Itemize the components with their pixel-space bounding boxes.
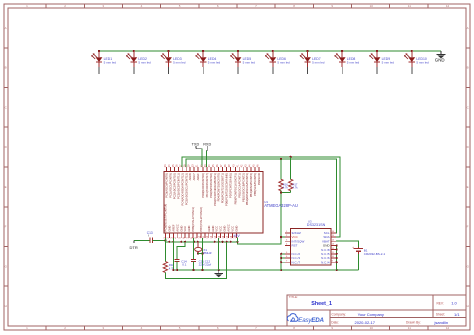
svg-text:GND: GND <box>223 226 227 232</box>
wire pull-up common node to +5V vertical <box>280 191 291 237</box>
svg-text:PD3(PCINT19/OC2B/INT1): PD3(PCINT19/OC2B/INT1) <box>213 173 217 206</box>
svg-text:F: F <box>467 225 469 229</box>
svg-text:+5V: +5V <box>233 234 240 238</box>
IC U3 DS3231SN RTC <box>285 219 336 265</box>
svg-text:PB3(MOSI/OC2A/PCINT3): PB3(MOSI/OC2A/PCINT3) <box>245 173 249 205</box>
net label TXD <box>192 142 202 148</box>
svg-text:PD6(PCINT22/OC0A/AIN0): PD6(PCINT22/OC0A/AIN0) <box>225 173 229 206</box>
svg-text:EasyEDA: EasyEDA <box>298 317 324 324</box>
LED LED1 5mm led with anode junction and cathode stub <box>91 50 116 74</box>
svg-text:5 mm led: 5 mm led <box>277 61 290 65</box>
LED LED6 5mm led with anode junction and cathode stub <box>265 50 290 74</box>
svg-text:12: 12 <box>446 326 450 330</box>
svg-text:PB1(OC1A/PCINT1): PB1(OC1A/PCINT1) <box>237 173 241 198</box>
LED LED9 5mm led with anode junction and cathode stub <box>369 50 394 74</box>
svg-text:AVCC: AVCC <box>175 224 179 231</box>
svg-text:PB2(SS/OC1B/PCINT2): PB2(SS/OC1B/PCINT2) <box>241 173 245 202</box>
LED LED7 5mm led with anode junction and cathode stub <box>300 50 325 74</box>
svg-text:PC2(ADC2/PCINT10): PC2(ADC2/PCINT10) <box>173 173 177 199</box>
svg-text:22pf 22pf: 22pf 22pf <box>199 263 212 267</box>
svg-text:GND: GND <box>234 226 238 232</box>
svg-text:11: 11 <box>408 326 411 330</box>
wire +5V rail under U1 to U3 VCC <box>165 236 290 244</box>
wire MCU GND pin drop <box>218 238 220 270</box>
svg-text:RXD: RXD <box>203 142 211 146</box>
svg-text:A: A <box>5 26 7 30</box>
junction SCL / R16 tap <box>280 158 282 160</box>
wire U3 GND and right N.C. pins tie to GND rail <box>336 244 338 270</box>
svg-text:4.7k: 4.7k <box>293 186 299 190</box>
svg-text:10: 10 <box>370 326 374 330</box>
svg-text:ATMEGA328P-AU: ATMEGA328P-AU <box>264 203 298 208</box>
wire GND rail <box>172 269 358 271</box>
svg-text:VCC: VCC <box>231 226 235 232</box>
svg-text:GND: GND <box>187 226 191 232</box>
svg-text:GND: GND <box>211 226 215 232</box>
svg-text:PD2(INT0/PCINT18): PD2(INT0/PCINT18) <box>209 173 213 198</box>
svg-text:A: A <box>467 26 469 30</box>
wire DTR to C13 <box>134 239 150 241</box>
svg-text:REV:: REV: <box>437 301 444 305</box>
wire LED cathode rail net <box>99 50 441 52</box>
svg-text:PD0(RXD/PCINT16): PD0(RXD/PCINT16) <box>201 173 205 198</box>
LED LED8 5mm led with anode junction and cathode stub <box>334 50 359 74</box>
net label RXD <box>203 142 211 150</box>
svg-text:E: E <box>467 185 469 189</box>
svg-text:5 mm led: 5 mm led <box>208 61 221 65</box>
svg-text:PC6(RESET/PCINT14): PC6(RESET/PCINT14) <box>164 204 168 232</box>
svg-text:Sheet_1: Sheet_1 <box>311 301 332 307</box>
svg-text:TXD: TXD <box>192 142 200 146</box>
resistor R16 4.7k pull-up on SCL <box>279 159 289 193</box>
svg-text:F: F <box>5 225 7 229</box>
svg-text:PD1(TXD/PCINT17): PD1(TXD/PCINT17) <box>205 173 209 197</box>
LED LED4 5mm led with anode junction and cathode stub <box>195 50 220 74</box>
wire SCL net: U1 PC5 to U3 SCL <box>186 159 337 233</box>
svg-text:AREF: AREF <box>196 173 200 181</box>
svg-text:2020-02-17: 2020-02-17 <box>355 320 376 325</box>
wire RESET node vertical <box>164 238 166 262</box>
wire XTAL2 pin drop <box>201 238 203 270</box>
resistor R18 4.7k reset pull <box>163 262 174 273</box>
svg-text:12: 12 <box>446 4 450 8</box>
svg-text:1/1: 1/1 <box>454 312 460 317</box>
svg-text:10: 10 <box>370 4 374 8</box>
svg-text:5 mm led: 5 mm led <box>312 61 325 65</box>
svg-text:TITLE:: TITLE: <box>289 295 298 299</box>
wire XTAL1 pin drop to C11 <box>193 238 195 259</box>
battery B1 CR2032-BS-2-1 <box>352 245 385 256</box>
svg-text:PB5(SCK/PCINT5): PB5(SCK/PCINT5) <box>253 173 257 196</box>
svg-text:E: E <box>5 185 7 189</box>
svg-text:ADC7: ADC7 <box>192 173 196 181</box>
svg-text:5 mm led: 5 mm led <box>173 61 186 65</box>
svg-text:5 mm led: 5 mm led <box>138 61 151 65</box>
svg-text:VCC: VCC <box>183 226 187 232</box>
svg-text:PRESCID: PRESCID <box>257 173 261 185</box>
svg-text:4.7k: 4.7k <box>283 186 289 190</box>
wire U3 left N.C. pins tie to GND rail <box>280 253 285 270</box>
svg-text:PD7(PCINT23/AIN1): PD7(PCINT23/AIN1) <box>229 173 233 198</box>
svg-text:GND: GND <box>167 226 171 232</box>
svg-text:5 mm led: 5 mm led <box>347 61 360 65</box>
ground GND flag under U1 <box>215 270 223 277</box>
LED LED2 5mm led with anode junction and cathode stub <box>126 50 151 74</box>
svg-text:PB0(PCINT0/CLKO/ICP1): PB0(PCINT0/CLKO/ICP1) <box>233 173 237 204</box>
svg-text:PD4(PCINT20/XCK/T0): PD4(PCINT20/XCK/T0) <box>217 173 221 201</box>
svg-text:PC4(ADC4/SDA/PCINT12): PC4(ADC4/SDA/PCINT12) <box>180 173 184 205</box>
wire U3 VBAT to battery <box>336 241 358 247</box>
U1 bottom pin name labels <box>164 204 239 232</box>
svg-text:PB6(XTAL1/TOSC1): PB6(XTAL1/TOSC1) <box>191 207 195 232</box>
net label DTR <box>130 240 138 250</box>
svg-text:5 mm led: 5 mm led <box>382 61 395 65</box>
U1 top pins with pin numbers <box>164 164 259 172</box>
svg-text:GND: GND <box>207 226 211 232</box>
svg-text:AREF: AREF <box>171 224 175 232</box>
svg-text:GND: GND <box>179 226 183 232</box>
svg-text:PC1(ADC1/PCINT9): PC1(ADC1/PCINT9) <box>169 173 173 198</box>
LED LED10 5mm led with anode junction and cathode stub <box>404 50 429 74</box>
wire C13 to RESET node <box>153 239 167 241</box>
capacitor C13 series reset cap <box>147 231 153 243</box>
junction SDA / R17 tap <box>290 156 292 158</box>
svg-text:C13: C13 <box>147 231 153 235</box>
U1 top pin name labels <box>165 173 261 206</box>
svg-text:DTR: DTR <box>130 245 138 250</box>
wire battery negative to GND rail <box>357 254 359 270</box>
svg-text:Date:: Date: <box>331 321 339 325</box>
LED LED3 5mm led with anode junction and cathode stub <box>161 50 186 74</box>
svg-text:5 mm led: 5 mm led <box>243 61 256 65</box>
value labels C11 C12 22pf <box>199 259 212 266</box>
svg-text:VCC: VCC <box>219 226 223 232</box>
wire TXD to U1 pin PD1 <box>201 149 203 167</box>
wire RXD to U1 pin PD0 <box>205 151 207 167</box>
svg-text:Drawn By:: Drawn By: <box>406 321 421 325</box>
svg-text:0.1: 0.1 <box>182 263 187 267</box>
crystal X1 8MHZ <box>195 242 212 255</box>
wire U1 GND pin drop to rail <box>172 238 174 270</box>
U3 left pins <box>285 231 304 264</box>
wire R18 bottom to +5V return <box>165 242 226 279</box>
wire SDA net: U1 PC4 to U3 SDA <box>182 157 340 237</box>
svg-text:B: B <box>467 66 469 70</box>
U3 right pins <box>321 231 336 264</box>
svg-text:8MHZ: 8MHZ <box>203 251 211 255</box>
svg-text:Sheet:: Sheet: <box>436 313 445 317</box>
svg-text:PB4(MISO/PCINT4): PB4(MISO/PCINT4) <box>249 173 253 197</box>
power flag +5V <box>233 234 240 242</box>
svg-text:jsandlin: jsandlin <box>434 320 449 325</box>
svg-text:H: H <box>5 304 7 308</box>
capacitor C14 0.1 on elbow <box>175 242 187 270</box>
svg-text:DS3231SN: DS3231SN <box>307 223 326 227</box>
svg-text:5 mm led: 5 mm led <box>104 61 117 65</box>
LED LED5 5mm led with anode junction and cathode stub <box>230 50 255 74</box>
svg-text:AVCC: AVCC <box>227 224 231 231</box>
svg-text:H: H <box>467 304 469 308</box>
svg-text:GND: GND <box>435 58 445 63</box>
svg-text:1.0: 1.0 <box>451 301 457 306</box>
svg-text:PD5(PCINT21/OC0B/T1): PD5(PCINT21/OC0B/T1) <box>221 173 225 203</box>
svg-text:N.C./7: N.C./7 <box>292 260 301 264</box>
svg-text:RST: RST <box>292 244 298 248</box>
svg-text:B: B <box>5 66 7 70</box>
svg-text:CR2032-BS-2-1: CR2032-BS-2-1 <box>364 252 386 256</box>
svg-text:PC3(ADC3/PCINT11): PC3(ADC3/PCINT11) <box>176 173 180 199</box>
resistor R17 4.7k pull-up on SDA <box>289 157 299 193</box>
svg-text:11: 11 <box>408 4 411 8</box>
svg-text:5 mm led: 5 mm led <box>416 61 429 65</box>
capacitor C11 22pf <box>191 259 196 270</box>
svg-text:Company:: Company: <box>332 312 347 316</box>
ground GND flag at end of LED rail <box>435 51 446 63</box>
IC U1 ATMEGA328P-AU microcontroller <box>163 164 298 239</box>
svg-text:Your Company: Your Company <box>358 312 384 317</box>
U1 bottom pins with pin numbers <box>163 233 237 239</box>
svg-text:VCC: VCC <box>215 226 219 232</box>
svg-text:PC5(ADC5/SCL/PCINT13): PC5(ADC5/SCL/PCINT13) <box>184 173 188 205</box>
svg-text:PC0(ADC0/PCINT8): PC0(ADC0/PCINT8) <box>165 173 169 198</box>
svg-text:ADC6: ADC6 <box>188 173 192 181</box>
svg-text:PB7(XTAL2/TOSC2): PB7(XTAL2/TOSC2) <box>199 207 203 232</box>
svg-text:N.C./4: N.C./4 <box>321 260 330 264</box>
